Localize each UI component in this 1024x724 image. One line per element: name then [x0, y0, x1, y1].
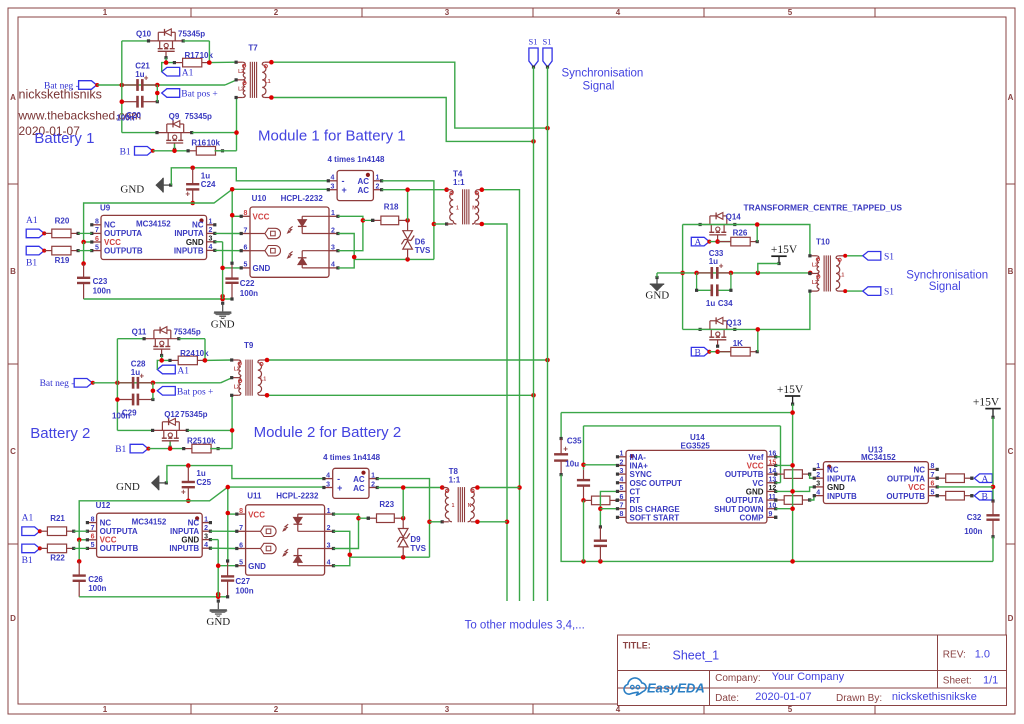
wire +15V EG vertical — [790, 404, 795, 564]
svg-text:4: 4 — [204, 542, 208, 549]
label Q13 — [726, 318, 742, 327]
label U14 — [681, 433, 711, 450]
power GND sync — [645, 276, 669, 302]
svg-text:5: 5 — [788, 8, 793, 17]
transistor Q12 — [151, 418, 189, 448]
svg-text:10k: 10k — [207, 139, 221, 148]
svg-text:A1: A1 — [26, 216, 38, 226]
wire INPUTA M2 — [210, 530, 236, 532]
svg-text:S1: S1 — [529, 37, 538, 47]
svg-text:100n: 100n — [964, 527, 982, 536]
wire res-B jog — [810, 496, 815, 500]
svg-text:1: 1 — [620, 451, 624, 458]
svg-text:Synchronisation: Synchronisation — [562, 68, 644, 80]
wire opto out upper M1 — [338, 216, 365, 250]
svg-text:3: 3 — [331, 245, 335, 252]
wire bus AC-B vertical — [480, 222, 510, 601]
wire INPUTA M1 — [215, 232, 241, 234]
net flag A sync — [691, 237, 711, 248]
wire U9-GND vertical M2 — [210, 540, 236, 597]
svg-text:7: 7 — [931, 472, 935, 479]
svg-text:GND: GND — [827, 483, 845, 492]
svg-text:2: 2 — [327, 525, 331, 532]
svg-text:5: 5 — [788, 705, 793, 714]
svg-text:C: C — [10, 447, 16, 456]
svg-text:7: 7 — [244, 227, 248, 234]
resistor gate-B — [774, 496, 811, 505]
svg-text:6: 6 — [91, 534, 95, 541]
svg-text:Drawn By:: Drawn By: — [836, 693, 882, 704]
svg-text:C34: C34 — [718, 299, 733, 308]
net flag B1-in M1 — [26, 246, 46, 268]
wire Vref up — [776, 426, 781, 483]
svg-text:2: 2 — [274, 705, 279, 714]
wire Bat_neg rail M2 — [93, 378, 232, 385]
text Synchronisation Signal top — [562, 68, 644, 93]
svg-text:S1: S1 — [884, 288, 894, 298]
svg-text:C22: C22 — [240, 279, 255, 288]
wire INPUTB M1 — [215, 249, 241, 251]
label C26 — [88, 575, 106, 593]
label D6 — [415, 237, 431, 255]
resistor R19 — [44, 246, 92, 255]
svg-text:AC: AC — [358, 177, 370, 186]
capacitor CT-filter upper — [577, 470, 590, 501]
svg-text:16: 16 — [769, 451, 777, 458]
text Battery 2 — [30, 425, 90, 442]
IC driver U9 MC34152 — [90, 215, 216, 259]
wire VCC rail M2 — [77, 485, 324, 564]
svg-text:6: 6 — [239, 542, 243, 549]
svg-text:1: 1 — [327, 508, 331, 515]
svg-text:C23: C23 — [93, 277, 108, 286]
svg-text:1.0: 1.0 — [975, 649, 990, 661]
svg-text:75345p: 75345p — [185, 112, 212, 121]
svg-text:4: 4 — [331, 175, 335, 182]
capacitor C33 — [697, 261, 731, 278]
svg-text:B: B — [982, 492, 988, 502]
svg-text:Module 1 for Battery 1: Module 1 for Battery 1 — [258, 128, 406, 145]
resistor R21 — [40, 527, 88, 536]
svg-text:R26: R26 — [733, 229, 748, 238]
IC driver U12 MC34152 — [86, 513, 212, 557]
svg-text:1u: 1u — [131, 368, 140, 377]
diode D6 TVS — [401, 220, 414, 259]
net flag B sync — [691, 347, 711, 358]
svg-text:8: 8 — [91, 516, 95, 523]
svg-text:1: 1 — [103, 705, 108, 714]
svg-text:SOFT START: SOFT START — [630, 513, 680, 522]
wire CT-filter lower — [581, 498, 586, 561]
svg-text:C32: C32 — [967, 513, 982, 522]
label T10 — [816, 238, 830, 247]
svg-text:R24: R24 — [180, 349, 195, 358]
wire T10 to S1a — [843, 254, 863, 258]
svg-text:C20: C20 — [126, 111, 141, 120]
capacitor CT-cap — [594, 527, 607, 562]
label C27 — [235, 577, 253, 596]
capacitor C23 — [77, 264, 90, 299]
logo EasyEDA — [624, 678, 705, 696]
svg-text:A: A — [10, 93, 16, 102]
transistor Q14 — [699, 213, 737, 243]
svg-text:+: + — [342, 185, 347, 195]
label C20 — [116, 111, 141, 123]
svg-text:L2: L2 — [234, 384, 240, 390]
svg-text:OUTPUTB: OUTPUTB — [100, 544, 139, 553]
resistor out-A — [936, 474, 974, 483]
svg-text:2020-01-07: 2020-01-07 — [755, 691, 811, 703]
svg-text:10u: 10u — [565, 460, 579, 469]
svg-text:6: 6 — [620, 494, 624, 501]
svg-text:6: 6 — [931, 481, 935, 488]
svg-text:GND: GND — [746, 488, 764, 497]
svg-text:Q11: Q11 — [132, 328, 147, 337]
net flag A1-in M2 — [22, 514, 42, 536]
capacitor C34 — [695, 273, 733, 296]
net flag Bat_pos M1 — [155, 85, 218, 102]
net flag B1-in M2 — [22, 544, 42, 566]
svg-text:Bat neg -: Bat neg - — [44, 81, 79, 91]
svg-text:INA-: INA- — [630, 453, 647, 462]
capacitor C22 — [225, 262, 238, 301]
net flag A1-in M1 — [26, 216, 46, 238]
label C21 — [135, 62, 150, 80]
svg-text:HCPL-2232: HCPL-2232 — [281, 194, 324, 203]
capacitor C32 — [986, 501, 999, 538]
svg-text:1/1: 1/1 — [983, 675, 998, 687]
svg-text:Q9: Q9 — [169, 112, 180, 121]
label Q14 — [726, 212, 742, 221]
svg-text:R22: R22 — [50, 554, 65, 563]
svg-text:SHUT DOWN: SHUT DOWN — [714, 505, 764, 514]
svg-text:GND: GND — [248, 562, 266, 571]
label R25 — [187, 436, 216, 445]
svg-text:1: 1 — [103, 8, 108, 17]
text nickskethisniks — [19, 88, 102, 102]
diode bridge M2 4x1n4148 — [322, 468, 379, 498]
wire B to R — [709, 349, 731, 354]
svg-text:+: + — [563, 444, 568, 453]
svg-text:3: 3 — [445, 705, 450, 714]
svg-text:GND: GND — [206, 616, 230, 628]
text Module 2 for Battery 2 — [254, 424, 402, 441]
svg-text:VCC: VCC — [253, 213, 270, 222]
wire INPUTB M2 — [210, 547, 236, 549]
transistor Q13 — [699, 317, 737, 347]
svg-text:1: 1 — [452, 503, 455, 509]
svg-text:1u: 1u — [706, 299, 715, 308]
svg-text:AC: AC — [358, 186, 370, 195]
label U11 — [247, 492, 319, 501]
pin COMP9 — [774, 516, 777, 519]
label C22 — [240, 279, 258, 298]
svg-text:2: 2 — [816, 472, 820, 479]
wire C35 branch top — [560, 413, 563, 441]
resistor R25 — [182, 444, 220, 453]
wire gate-A1 M1 — [162, 58, 175, 72]
svg-text:1u: 1u — [709, 257, 718, 266]
wire bridge1 vertical M1 — [382, 181, 437, 260]
wire Q-drain to T M1 — [183, 41, 236, 65]
svg-text:EG3525: EG3525 — [681, 442, 711, 451]
svg-text:B: B — [695, 348, 701, 358]
capacitor C25 — [181, 466, 195, 504]
svg-text:4: 4 — [616, 8, 621, 17]
text Module 1 for Battery 1 — [258, 128, 406, 145]
svg-text:OUTPUTA: OUTPUTA — [887, 474, 925, 483]
IC U13 MC34152 — [813, 462, 939, 504]
wire C33 rail — [657, 271, 813, 278]
svg-text:AC: AC — [353, 484, 365, 493]
svg-text:15: 15 — [769, 459, 777, 466]
label C34 — [706, 299, 733, 308]
label R26 — [733, 229, 748, 238]
net flag S1 out-a — [863, 252, 894, 263]
svg-text:U9: U9 — [100, 203, 111, 212]
svg-text:2: 2 — [620, 459, 624, 466]
wire res-A jog — [810, 474, 815, 478]
resistor R23 — [359, 514, 406, 523]
svg-text:C35: C35 — [567, 437, 582, 446]
svg-text:MC34152: MC34152 — [136, 220, 171, 229]
svg-text:12: 12 — [769, 485, 777, 492]
wire T8 sync top tap — [475, 485, 519, 490]
label T8 — [449, 467, 461, 485]
svg-text:R19: R19 — [55, 256, 70, 265]
wire T9 sync bottom — [265, 393, 536, 398]
wire GND12 — [776, 487, 815, 491]
svg-text:U11: U11 — [247, 492, 262, 501]
svg-text:MC34152: MC34152 — [132, 518, 167, 527]
svg-text:1:1: 1:1 — [453, 178, 465, 187]
svg-text:Signal: Signal — [583, 81, 615, 93]
svg-text:N: N — [472, 205, 476, 211]
resistor R24 — [168, 356, 206, 365]
svg-text:A1: A1 — [22, 514, 34, 524]
net flag A1 M1 — [162, 67, 194, 78]
svg-text:Q10: Q10 — [136, 30, 152, 39]
wire bus AC-A vertical — [480, 187, 522, 601]
wire GND rail to bridge M2 — [167, 463, 324, 483]
svg-text:R25: R25 — [187, 436, 202, 445]
svg-text:Bat pos +: Bat pos + — [177, 387, 214, 397]
transistor Q9 — [155, 121, 193, 151]
resistor R16 — [187, 147, 225, 156]
svg-text:10k: 10k — [195, 349, 209, 358]
label U13 — [861, 445, 896, 461]
svg-text:T7: T7 — [248, 43, 258, 52]
svg-text:EasyEDA: EasyEDA — [647, 681, 705, 696]
label D9 — [410, 535, 426, 553]
ground symbol M1 lower — [211, 302, 235, 331]
wire Q13 rail — [683, 290, 810, 352]
svg-text:7: 7 — [239, 525, 243, 532]
svg-text:DIS CHARGE: DIS CHARGE — [630, 505, 681, 514]
wire gate-B1 M1 — [153, 144, 188, 153]
svg-text:AC: AC — [353, 475, 365, 484]
net flag Bat_neg M1 — [44, 81, 99, 92]
svg-text:GND: GND — [645, 289, 669, 301]
svg-text:3: 3 — [816, 481, 820, 488]
svg-text:1: 1 — [204, 516, 208, 523]
label C28 — [131, 359, 146, 377]
svg-text:D6: D6 — [415, 237, 426, 246]
transformer T8 — [442, 487, 477, 522]
svg-text:C26: C26 — [88, 575, 103, 584]
capacitor C26 — [73, 561, 86, 596]
svg-text:SYNC: SYNC — [630, 470, 652, 479]
label bridge M2 — [323, 453, 380, 462]
svg-text:L2: L2 — [812, 280, 818, 286]
label T7 — [248, 43, 258, 52]
svg-text:2: 2 — [376, 184, 380, 191]
wire left rail M2 — [117, 339, 152, 431]
svg-text:8: 8 — [95, 219, 99, 226]
svg-text:100n: 100n — [235, 587, 253, 596]
optocoupler U11 HCPL-2232 — [235, 505, 335, 575]
svg-text:1: 1 — [816, 463, 820, 470]
diode D9 TVS — [397, 518, 410, 557]
label U10 — [252, 194, 324, 203]
svg-text:L2: L2 — [234, 367, 240, 373]
svg-text:To other modules 3,4,...: To other modules 3,4,... — [465, 620, 585, 632]
svg-text:10k: 10k — [200, 51, 214, 60]
diode bridge M1 4x1n4148 — [327, 171, 384, 201]
transformer T10 — [808, 254, 845, 293]
svg-text:5: 5 — [239, 560, 243, 567]
svg-text:+: + — [144, 74, 149, 83]
svg-text:7: 7 — [95, 227, 99, 234]
svg-text:5: 5 — [244, 262, 248, 269]
svg-text:GND: GND — [116, 481, 140, 493]
label bridge M1 — [328, 155, 385, 164]
power +15V out — [973, 396, 1001, 419]
svg-text:C29: C29 — [122, 409, 137, 418]
svg-text:5: 5 — [95, 244, 99, 251]
wire VCC U13 — [937, 486, 993, 488]
svg-text:OUTPUTB: OUTPUTB — [886, 492, 925, 501]
net flag B1 M2 — [115, 444, 150, 455]
svg-text:75345p: 75345p — [178, 30, 205, 39]
label R17 — [185, 51, 214, 60]
net flag S1 left — [529, 37, 539, 69]
svg-text:B: B — [10, 267, 16, 276]
svg-text:Bat neg -: Bat neg - — [40, 379, 75, 389]
svg-text:4 times 1n4148: 4 times 1n4148 — [328, 155, 385, 164]
svg-text:10k: 10k — [202, 436, 216, 445]
wire EG top rail — [561, 412, 793, 414]
svg-text:3: 3 — [327, 542, 331, 549]
label C35 — [565, 437, 582, 469]
svg-text:+: + — [181, 487, 186, 496]
svg-text:C25: C25 — [196, 478, 211, 487]
wire bridge2 to T M1 — [382, 187, 449, 220]
svg-text:Sheet:: Sheet: — [943, 676, 972, 687]
net flag B out — [974, 491, 992, 502]
wire gate-A1 M2 — [157, 356, 170, 370]
svg-text:C27: C27 — [235, 577, 250, 586]
optocoupler U10 HCPL-2232 — [240, 207, 340, 277]
svg-text:8: 8 — [239, 508, 243, 515]
svg-text:Your Company: Your Company — [772, 671, 845, 683]
svg-text:INPUTB: INPUTB — [827, 492, 857, 501]
wire T7 sync bottom — [269, 95, 536, 144]
svg-text:6: 6 — [95, 236, 99, 243]
svg-text:INPUTB: INPUTB — [169, 544, 199, 553]
net flag Bat_neg M2 — [40, 379, 95, 390]
net flag A1 M2 — [157, 365, 189, 376]
wire SHUTDOWN10 — [776, 508, 793, 510]
svg-text:4: 4 — [209, 244, 213, 251]
capacitor C24 — [185, 168, 199, 206]
wire bridge2 to T M2 — [377, 485, 444, 518]
wire CT wire — [598, 491, 617, 528]
svg-text:Vref: Vref — [748, 453, 763, 462]
svg-text:5: 5 — [931, 489, 935, 496]
label R22 — [50, 554, 65, 563]
svg-text:Synchronisation: Synchronisation — [906, 269, 988, 281]
svg-text:B1: B1 — [22, 556, 33, 566]
transformer T7 — [235, 61, 272, 100]
svg-text:1u: 1u — [196, 469, 205, 478]
wire sync left vertical — [680, 225, 685, 330]
svg-text:C: C — [1008, 447, 1014, 456]
net flag Bat_pos M2 — [151, 383, 214, 400]
svg-text:REV:: REV: — [943, 650, 966, 661]
svg-text:NC: NC — [827, 466, 839, 475]
label C25 — [196, 469, 211, 487]
svg-text:R17: R17 — [185, 51, 200, 60]
svg-text:2: 2 — [331, 227, 335, 234]
label Q10 — [136, 30, 205, 39]
svg-text:13: 13 — [769, 477, 777, 484]
label R21 — [50, 514, 65, 523]
svg-text:T9: T9 — [244, 341, 254, 350]
wire bridge1 vertical M2 — [377, 479, 432, 558]
svg-text:10: 10 — [769, 503, 777, 510]
svg-text:Date:: Date: — [715, 693, 739, 704]
transistor Q10 — [147, 29, 185, 59]
label C29 — [112, 409, 137, 421]
label C32 — [964, 513, 982, 536]
svg-text:R21: R21 — [50, 514, 65, 523]
svg-text:A: A — [982, 475, 989, 485]
title block table — [618, 635, 1007, 706]
resistor RT-res — [584, 496, 619, 505]
wire bus S1-right vertical — [547, 67, 549, 601]
resistor R18 — [363, 216, 410, 225]
wire R to T bottom M1 — [192, 98, 239, 151]
wire T7 sync top — [269, 60, 550, 131]
svg-text:L1: L1 — [260, 377, 266, 383]
svg-text:+15V: +15V — [777, 384, 804, 396]
svg-text:3: 3 — [445, 8, 450, 17]
wire GND bottom rail M2 — [79, 592, 227, 599]
svg-text:TRANSFORMER_CENTRE_TAPPED_US: TRANSFORMER_CENTRE_TAPPED_US — [744, 202, 903, 212]
wire C32 down — [992, 537, 994, 562]
net flag B1 M1 — [120, 147, 155, 158]
wire gate-B1 M2 — [148, 442, 183, 451]
svg-text:OUTPUTA: OUTPUTA — [725, 496, 763, 505]
svg-text:CT: CT — [630, 488, 641, 497]
label 1K — [733, 339, 743, 348]
wire bus S1-left vertical — [533, 67, 535, 601]
wire GND rail to bridge M1 — [171, 166, 328, 186]
label Q11 — [132, 328, 201, 337]
svg-text:3: 3 — [620, 468, 624, 475]
wire R to T bottom M2 — [188, 395, 235, 448]
